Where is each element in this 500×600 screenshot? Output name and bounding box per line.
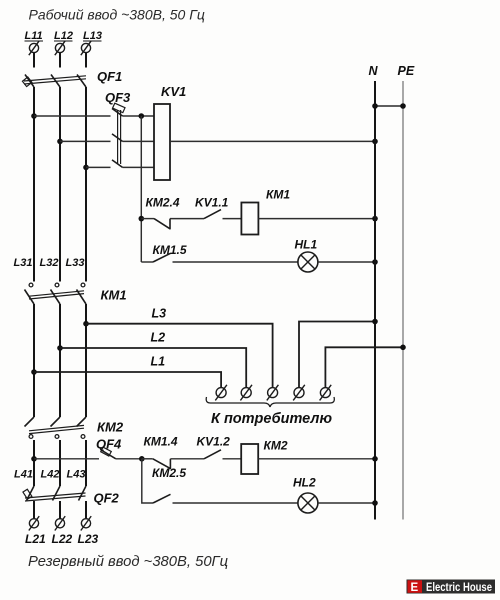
- terminal L13: [81, 30, 102, 55]
- svg-text:L41: L41: [14, 469, 33, 481]
- wire QF2 to terminal L21: [33, 501, 35, 519]
- consumer terminal 4: [293, 385, 305, 401]
- terminal L23: [78, 516, 99, 546]
- wire L1 to consumer terminal 1: [34, 355, 221, 388]
- circuit breaker QF2: [23, 486, 120, 506]
- wire N-PE bond: [372, 103, 406, 109]
- wire QF3 to KV1 input 1: [123, 115, 155, 117]
- junction KV1 output at N: [372, 139, 378, 145]
- wire L3 to consumer terminal 3: [86, 307, 273, 388]
- svg-text:К потребителю: К потребителю: [211, 411, 332, 427]
- svg-text:КМ2.4: КМ2.4: [146, 196, 180, 210]
- svg-text:PE: PE: [398, 64, 415, 78]
- svg-text:КМ1.4: КМ1.4: [144, 435, 178, 449]
- svg-text:KV1.1: KV1.1: [195, 196, 229, 210]
- circuit breaker QF4: [96, 437, 122, 459]
- wire consumer terminal 5 to PE bus: [325, 345, 405, 388]
- wire phase C to QF3: [86, 166, 111, 168]
- svg-text:QF1: QF1: [97, 69, 122, 84]
- wire L11 down to QF1: [33, 53, 35, 68]
- label: Резервный ввод ~380В, 50Гц: [28, 554, 228, 570]
- wire phase B vertical (QF1 to KM1): [59, 87, 61, 282]
- wire control drop: [140, 116, 142, 262]
- svg-text:L43: L43: [67, 469, 86, 481]
- wire HL2 to N bus: [318, 502, 375, 504]
- junction HL1 row at N: [372, 259, 378, 265]
- wire reserve phase B vertical (KM2 to QF2): [59, 440, 61, 486]
- svg-text:КМ2: КМ2: [97, 420, 124, 435]
- consumer terminal 2: [240, 385, 252, 401]
- wire phase A vertical (QF1 to KM1): [33, 87, 35, 282]
- terminal L12: [54, 30, 73, 55]
- terminal L21: [25, 516, 46, 546]
- circuit breaker QF1: [22, 69, 122, 87]
- contact KM1.5 (NO): [153, 243, 298, 262]
- svg-text:QF2: QF2: [94, 491, 120, 506]
- svg-text:L2: L2: [151, 331, 166, 345]
- wire consumer terminal 4 to N bus: [299, 319, 378, 388]
- svg-text:L33: L33: [66, 257, 85, 269]
- svg-text:QF3: QF3: [105, 90, 131, 105]
- label L41: [14, 469, 33, 481]
- svg-text:L31: L31: [14, 257, 33, 269]
- wire reserve phase A vertical (KM2 to QF2): [33, 440, 35, 486]
- node L1 tap: [31, 369, 37, 375]
- svg-text:KV1.2: KV1.2: [197, 435, 231, 449]
- svg-text:E: E: [411, 582, 419, 594]
- svg-text:KV1: KV1: [161, 84, 186, 99]
- svg-text:Рабочий ввод ~380В, 50 Гц: Рабочий ввод ~380В, 50 Гц: [29, 7, 205, 23]
- label L31: [14, 257, 33, 269]
- wire L12 down to QF1: [59, 53, 61, 68]
- lamp HL1: [295, 238, 318, 273]
- label L43: [67, 469, 86, 481]
- svg-text:L12: L12: [54, 30, 73, 42]
- wire QF3 to KV1 input 2: [123, 140, 155, 142]
- wire QF4 to junction: [116, 458, 142, 460]
- coil KM1: [241, 188, 290, 235]
- junction KM1 coil row: [139, 216, 145, 222]
- contact KM2.5 (NO): [152, 466, 298, 503]
- junction reserve control tap: [31, 456, 37, 462]
- wire phase B vertical (KM1 to KM2): [59, 304, 61, 417]
- svg-text:L22: L22: [52, 532, 73, 546]
- coil KM2: [241, 439, 288, 475]
- wire phase C vertical (QF1 to KM1): [85, 87, 87, 282]
- bus N: [369, 64, 379, 520]
- wire L13 down to QF1: [85, 53, 87, 68]
- svg-text:КМ1: КМ1: [101, 288, 127, 303]
- terminal L11: [25, 30, 44, 55]
- junction KM2 coil row: [139, 456, 145, 462]
- wire phase A vertical (KM1 to KM2): [33, 304, 35, 417]
- svg-text:L23: L23: [78, 532, 99, 546]
- svg-text:L32: L32: [40, 257, 59, 269]
- wire KM2 coil to N bus: [258, 458, 375, 460]
- svg-text:КМ1.5: КМ1.5: [153, 243, 187, 257]
- wire L2 to consumer terminal 2: [60, 331, 246, 388]
- label: К потребителю with brace: [206, 397, 334, 427]
- wire KV1 output to N bus: [170, 140, 375, 142]
- bus PE: [398, 64, 415, 520]
- wire phase C vertical (KM1 to KM2): [85, 304, 87, 417]
- wire QF3 to KV1 input 3: [123, 166, 155, 168]
- junction phase C tap: [83, 165, 89, 171]
- svg-text:N: N: [369, 64, 379, 78]
- phase control relay KV1: [154, 84, 186, 180]
- svg-text:Electric House: Electric House: [426, 582, 492, 594]
- contact KV1.2 (NO): [197, 435, 242, 459]
- junction control tap: [139, 113, 145, 119]
- svg-text:КМ2: КМ2: [264, 439, 288, 453]
- svg-text:КМ1: КМ1: [266, 188, 290, 202]
- wire reserve phase C vertical (KM2 to QF2): [85, 440, 87, 486]
- wire HL1 to N bus: [318, 261, 375, 263]
- consumer terminal 3: [267, 385, 279, 401]
- svg-text:L42: L42: [41, 469, 60, 481]
- terminal L22: [52, 516, 73, 546]
- junction phase A tap: [31, 113, 37, 119]
- svg-text:L21: L21: [25, 532, 46, 546]
- lamp HL2: [293, 476, 318, 514]
- node L3 tap: [83, 321, 89, 327]
- wire to KM2.4: [141, 218, 154, 220]
- wire phase B to QF3: [60, 140, 111, 142]
- wire drop to KM2.5: [142, 459, 153, 503]
- label L33: [66, 257, 85, 269]
- consumer terminal 5: [320, 385, 332, 401]
- junction KM1 coil row at N: [372, 216, 378, 222]
- label: Рабочий ввод ~380В, 50 Гц: [29, 7, 205, 23]
- svg-text:HL2: HL2: [293, 476, 316, 490]
- wire QF2 to terminal L22: [59, 501, 61, 519]
- svg-text:HL1: HL1: [295, 238, 318, 252]
- svg-text:L1: L1: [151, 355, 166, 369]
- svg-text:QF4: QF4: [96, 437, 122, 452]
- junction HL2 row at N: [372, 500, 378, 506]
- svg-text:L11: L11: [25, 30, 43, 42]
- wire QF2 to terminal L23: [85, 501, 87, 519]
- contactor KM2 main contacts: [25, 417, 124, 438]
- svg-text:L3: L3: [152, 307, 167, 321]
- svg-text:L13: L13: [83, 30, 102, 42]
- contact KM2.4 (NC): [146, 196, 205, 230]
- junction phase B tap: [57, 139, 63, 145]
- wire corner to KM1.5: [141, 261, 153, 263]
- consumer terminal 1: [215, 385, 227, 401]
- wire phase A to QF3: [34, 115, 111, 117]
- node L2 tap: [57, 345, 63, 351]
- contactor KM1 main contacts: [25, 283, 127, 304]
- contact KM1.4 (NC): [144, 435, 205, 470]
- circuit breaker QF3: [105, 90, 131, 167]
- junction KM2 coil row at N: [372, 456, 378, 462]
- wire tap to QF4: [34, 458, 99, 460]
- logo Electric House: [407, 580, 496, 595]
- svg-text:КМ2.5: КМ2.5: [152, 466, 186, 480]
- label L32: [40, 257, 59, 269]
- label L42: [41, 469, 60, 481]
- wire KM1 coil to N bus: [258, 218, 375, 220]
- contact KV1.1 (NO): [195, 196, 241, 219]
- svg-text:Резервный ввод ~380В, 50Гц: Резервный ввод ~380В, 50Гц: [28, 554, 228, 570]
- wire to KM1.4: [142, 458, 153, 460]
